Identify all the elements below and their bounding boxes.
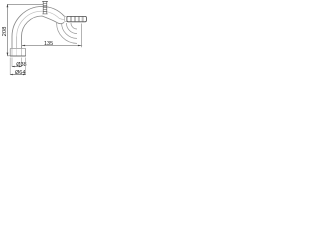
svg-text:208: 208 — [2, 26, 8, 37]
node 135 dimension line — [22, 45, 82, 47]
wire: 208 top extension line — [7, 3, 43, 5]
wire: tube outer wall — [12, 6, 65, 36]
node bottom nut body — [10, 48, 25, 50]
wire: 135 right extension line — [81, 24, 83, 48]
node collar before right nut — [65, 17, 67, 22]
node d64 dimension line — [10, 74, 25, 76]
node right nut ribs — [70, 17, 83, 22]
node d38 dimension line — [12, 66, 22, 68]
wire: left leg outer wall — [11, 37, 13, 49]
wire: tube inner wall — [22, 16, 65, 37]
wire: flexible fan arc 1 — [71, 23, 77, 29]
node corrugated inlet (ladder) — [42, 1, 48, 14]
wire: flexible fan arc 4 — [57, 23, 77, 43]
svg-text:135: 135 — [44, 41, 53, 47]
wire: left leg centerline — [16, 37, 18, 49]
node right nut body — [67, 16, 87, 21]
wire: tube walls inside bottom nut — [12, 49, 22, 57]
wire: d38 extension lines — [12, 58, 22, 67]
node 208 dimension line — [6, 4, 8, 56]
wire: d64 extension lines — [10, 58, 25, 75]
node bottom nut base line — [10, 55, 26, 57]
wire: tube centerline — [17, 11, 65, 36]
wire: 208 bottom extension line — [7, 55, 11, 57]
wire: flexible fan arc 2 — [66, 23, 77, 34]
wire: flexible fan arc 3 — [62, 23, 77, 38]
wire: left leg inner wall — [21, 37, 23, 49]
svg-text:Ø38: Ø38 — [16, 62, 26, 68]
svg-text:Ø64: Ø64 — [15, 70, 25, 76]
